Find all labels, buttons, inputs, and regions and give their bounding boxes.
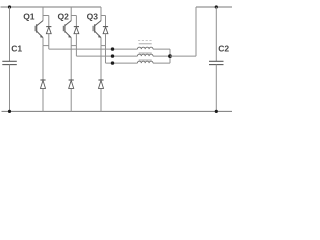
node bus join junction — [168, 54, 172, 58]
svg-text:C2: C2 — [218, 44, 229, 54]
transistor Q3 — [94, 24, 96, 32]
diode D4 freewheel — [42, 46, 44, 80]
capacitor C2 — [209, 60, 224, 62]
wire phase node 2 — [71, 45, 76, 47]
wire phase node 3 — [101, 45, 106, 47]
wire Q3 collector drop — [100, 7, 102, 21]
inductor L2 — [139, 52, 152, 54]
wire Q2 collector drop — [70, 7, 72, 21]
node output- junction — [215, 110, 218, 113]
node input+ junction — [8, 5, 11, 8]
wire phase node 1 — [43, 45, 49, 47]
wire phase 2 bus drop — [75, 46, 77, 57]
wire bus join vertical — [169, 49, 171, 63]
svg-text:Q1: Q1 — [23, 11, 35, 21]
wire Q3 jog to diode branch — [101, 15, 106, 17]
diode D3 antiparallel — [103, 26, 108, 28]
wire phase 3 bus drop — [105, 46, 107, 64]
wire C2 upper lead — [215, 7, 217, 61]
wire C1 upper lead — [9, 7, 11, 61]
wire Q1 jog to diode branch — [43, 15, 49, 17]
node output+ junction — [215, 5, 218, 8]
wire Q1 collector drop — [42, 7, 44, 21]
diode D2 antiparallel — [74, 26, 79, 28]
wire Q3 emitter lead — [100, 38, 102, 46]
node phase 2 tap junction — [111, 54, 114, 57]
wire phase 1 bus drop — [48, 46, 50, 50]
diode D5 freewheel — [70, 46, 72, 80]
wire C1 lower lead — [9, 65, 11, 112]
node input- junction — [8, 110, 11, 113]
wire output riser — [195, 7, 197, 56]
transistor Q1 — [36, 24, 38, 32]
wire top rail right segment (output+ bus) — [196, 6, 232, 8]
wire C2 lower lead — [215, 65, 217, 112]
transistor Q2 — [64, 24, 66, 32]
svg-text:C1: C1 — [11, 43, 22, 53]
diode D1 antiparallel — [46, 26, 51, 28]
wire top rail left segment (input+ bus) — [1, 6, 102, 8]
wire phase 2 bus — [76, 55, 137, 57]
wire bottom rail (common bus) — [2, 110, 233, 112]
node phase 3 tap junction — [111, 61, 114, 64]
wire phase 1 bus — [49, 48, 138, 50]
node phase 1 tap junction — [111, 47, 114, 50]
svg-text:Q3: Q3 — [87, 11, 99, 21]
capacitor C1 — [2, 60, 16, 62]
inductor L1 — [139, 43, 152, 45]
wire Q1 emitter lead — [42, 38, 44, 46]
inductor L3 — [139, 59, 152, 61]
svg-text:Q2: Q2 — [58, 11, 70, 21]
wire Q2 jog to diode branch — [71, 15, 76, 17]
wire Q2 emitter lead — [70, 38, 72, 46]
wire phase 3 bus — [106, 62, 138, 64]
diode D6 freewheel — [100, 46, 102, 80]
wire output line — [170, 55, 196, 57]
